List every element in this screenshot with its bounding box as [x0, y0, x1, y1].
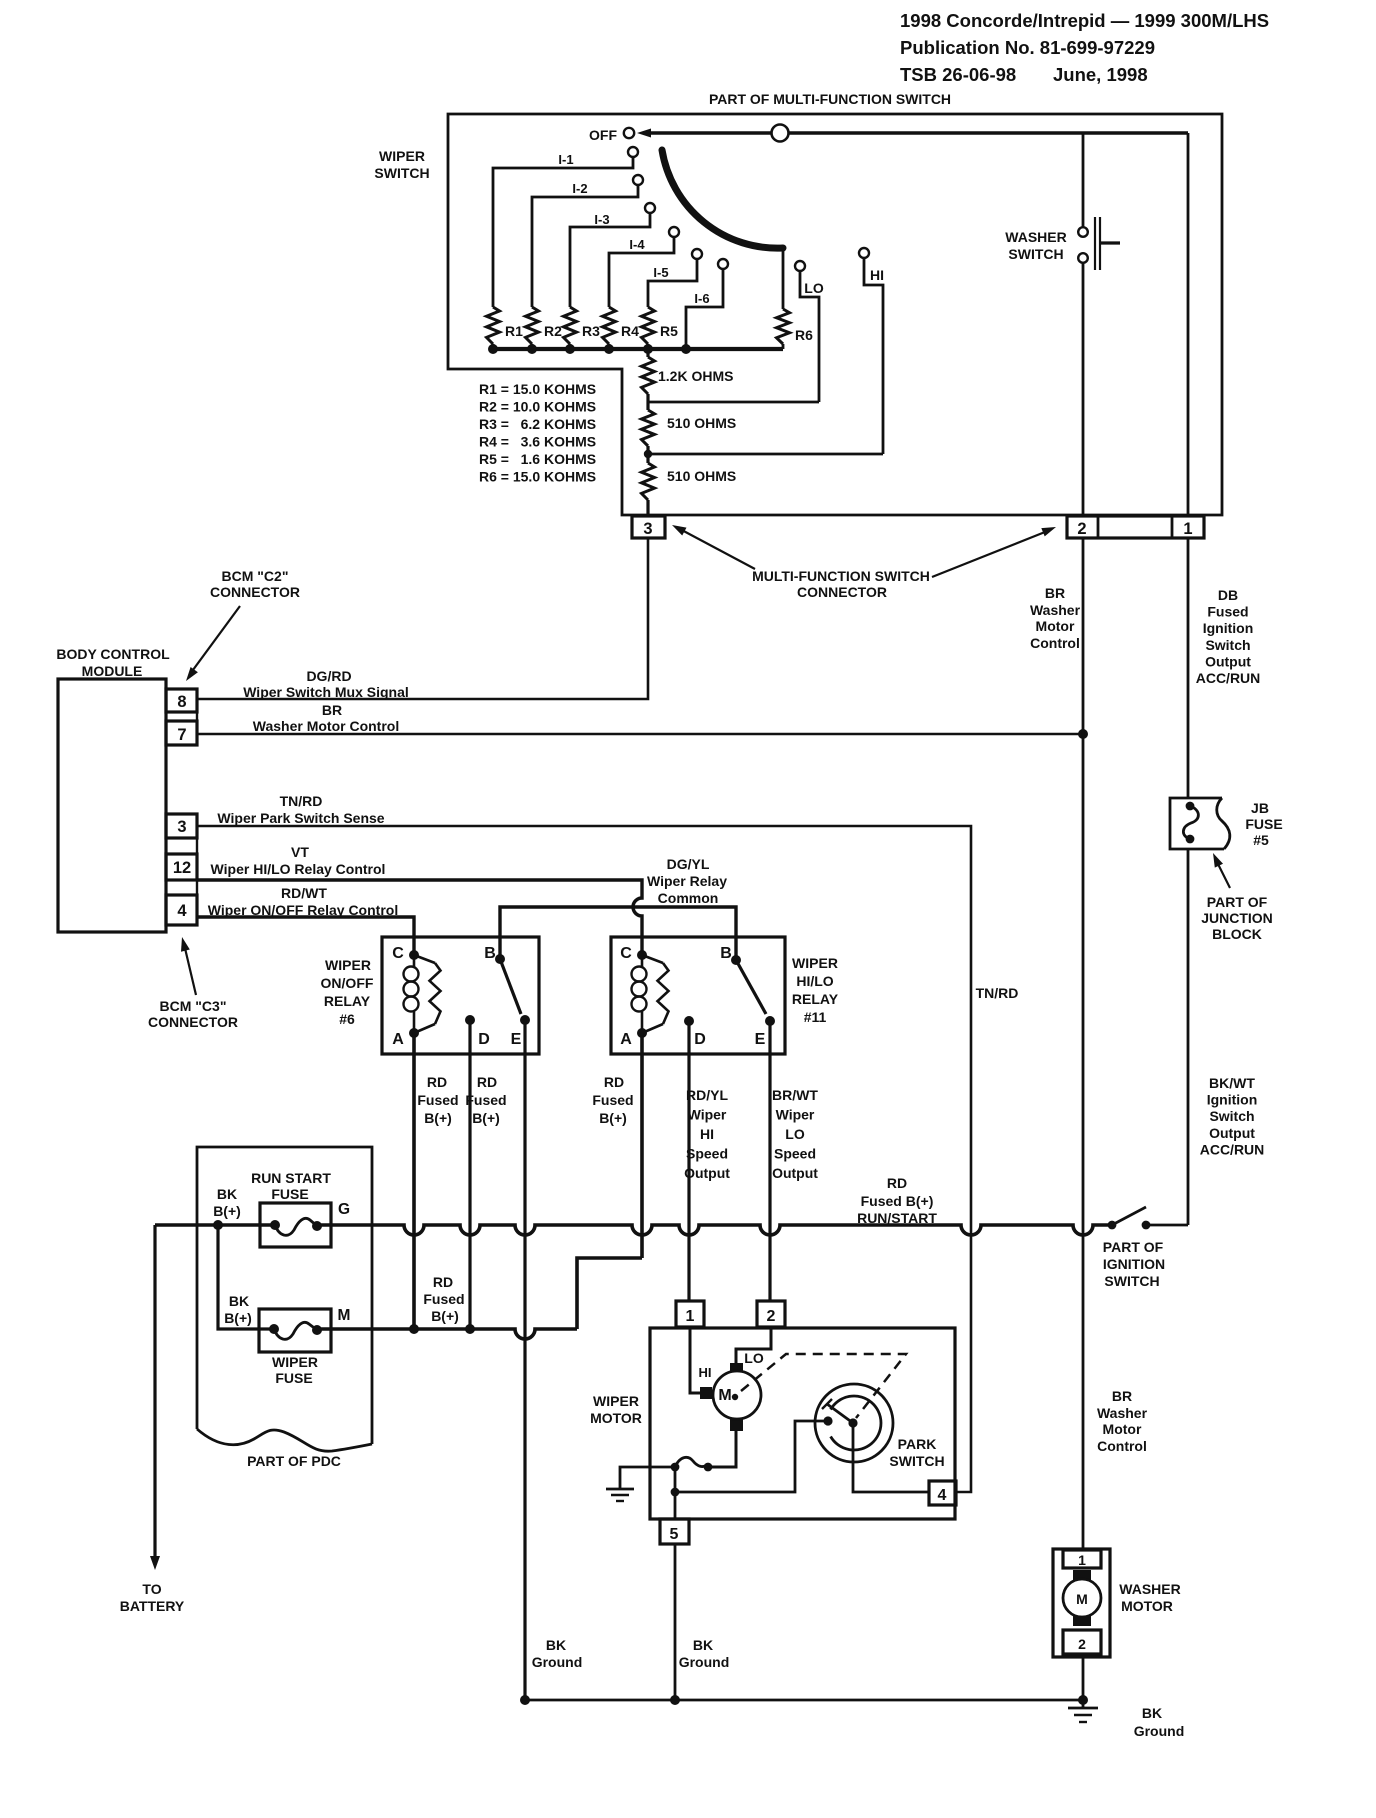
svg-text:DG/RD: DG/RD — [306, 668, 351, 684]
resistor R4 — [603, 307, 616, 344]
svg-text:Wiper HI/LO Relay Control: Wiper HI/LO Relay Control — [211, 861, 386, 877]
svg-text:R2: R2 — [544, 323, 562, 339]
relay blade — [736, 960, 766, 1014]
relay blade — [500, 959, 521, 1014]
svg-text:M: M — [338, 1307, 351, 1324]
ground bus — [525, 1699, 1083, 1702]
contact I-2 — [633, 175, 643, 185]
wiper motor box — [650, 1328, 955, 1519]
wire RD/WT wiper on/off relay control — [197, 917, 414, 955]
svg-text:2: 2 — [1078, 1636, 1086, 1652]
arrow to pin 2 — [932, 530, 1050, 577]
wiper motor pin 5 — [660, 1519, 689, 1544]
svg-text:WIPER: WIPER — [325, 957, 371, 973]
svg-text:510 OHMS: 510 OHMS — [667, 415, 736, 431]
svg-text:A: A — [620, 1031, 632, 1048]
svg-text:HI: HI — [699, 1365, 712, 1380]
wire HI junction — [648, 453, 883, 456]
junction — [1078, 729, 1088, 739]
svg-text:C: C — [620, 945, 632, 962]
relay box #11 — [611, 937, 785, 1054]
BCM pin 8 — [166, 689, 197, 712]
svg-text:Washer: Washer — [1097, 1405, 1148, 1421]
resistor 1.2K OHMS — [646, 349, 649, 357]
wiper motor pin 1 — [676, 1301, 704, 1327]
svg-text:Wiper Park Switch Sense: Wiper Park Switch Sense — [217, 810, 384, 826]
svg-text:BLOCK: BLOCK — [1212, 926, 1262, 942]
svg-text:Control: Control — [1097, 1438, 1147, 1454]
svg-text:BK: BK — [546, 1637, 566, 1653]
svg-text:PARK: PARK — [898, 1436, 937, 1452]
relay terminal D — [684, 1016, 694, 1026]
resistor 510 OHMS lower — [646, 454, 649, 463]
svg-text:3: 3 — [643, 520, 652, 538]
wire relay6 E to ground — [523, 1020, 526, 1700]
contact I-6 — [718, 259, 728, 269]
resistor R2 — [526, 307, 539, 344]
svg-text:RD: RD — [427, 1074, 447, 1090]
svg-text:BR: BR — [1112, 1388, 1132, 1404]
junction — [671, 1463, 680, 1472]
wire OFF feed to pin 1 — [646, 131, 1188, 134]
wire relay11 E wiper lo speed output — [768, 1021, 771, 1301]
wire BR washer motor control drop — [1082, 538, 1085, 1550]
svg-text:SWITCH: SWITCH — [374, 165, 429, 181]
svg-text:HI/LO: HI/LO — [796, 973, 833, 989]
svg-text:BODY CONTROL: BODY CONTROL — [56, 646, 170, 662]
svg-text:IGNITION: IGNITION — [1103, 1256, 1165, 1272]
part of PDC box — [197, 1147, 372, 1444]
wire motor brush to park jumper — [708, 1431, 736, 1467]
relay terminal C — [637, 950, 647, 960]
svg-text:TSB 26-06-98: TSB 26-06-98 — [900, 64, 1016, 85]
svg-text:LO: LO — [804, 280, 824, 296]
svg-text:BK: BK — [217, 1186, 237, 1202]
svg-text:510 OHMS: 510 OHMS — [667, 468, 736, 484]
svg-text:RD: RD — [433, 1274, 453, 1290]
junction — [644, 450, 652, 458]
svg-text:ACC/RUN: ACC/RUN — [1200, 1141, 1265, 1157]
svg-text:WIPER: WIPER — [379, 148, 425, 164]
svg-text:Fused: Fused — [592, 1092, 633, 1108]
svg-text:I-6: I-6 — [694, 291, 709, 306]
svg-text:PART OF PDC: PART OF PDC — [247, 1453, 341, 1469]
svg-text:MODULE: MODULE — [82, 663, 143, 679]
junction — [409, 1324, 419, 1334]
park switch linkage dashed — [741, 1354, 906, 1418]
svg-text:R1 = 15.0 KOHMS: R1 = 15.0 KOHMS — [479, 381, 596, 397]
svg-text:B: B — [484, 945, 496, 962]
BCM pin spacer — [166, 880, 197, 895]
svg-text:1.2K OHMS: 1.2K OHMS — [658, 368, 733, 384]
svg-text:3: 3 — [177, 818, 186, 836]
svg-text:BK: BK — [229, 1293, 249, 1309]
svg-text:Fused: Fused — [1207, 604, 1248, 620]
wire pin2 to LO brush — [736, 1327, 771, 1363]
svg-text:OFF: OFF — [589, 127, 617, 143]
body control module — [58, 679, 166, 932]
svg-text:Motor: Motor — [1036, 618, 1075, 634]
relay terminal C — [409, 950, 419, 960]
svg-text:R5: R5 — [660, 323, 678, 339]
svg-text:R5 = 1.6 KOHMS: R5 = 1.6 KOHMS — [479, 451, 596, 467]
svg-text:R4: R4 — [621, 323, 639, 339]
relay coil resistor — [642, 955, 663, 963]
wire DG/RD wiper switch mux signal — [197, 538, 648, 699]
arrow to C3 — [184, 944, 196, 995]
svg-text:8: 8 — [177, 693, 186, 711]
svg-text:Output: Output — [1205, 653, 1251, 669]
svg-text:BR: BR — [1045, 585, 1065, 601]
park switch left contact — [823, 1416, 832, 1425]
resistor R6 — [782, 248, 785, 309]
contact I-4 — [669, 227, 679, 237]
svg-text:Wiper: Wiper — [776, 1107, 815, 1123]
BCM pin 12 — [166, 854, 197, 880]
fuse wiper — [259, 1309, 331, 1352]
BCM pin 3 — [166, 814, 197, 838]
ignition switch — [1108, 1221, 1117, 1230]
washer motor — [1053, 1549, 1110, 1657]
ground symbol main — [1082, 1700, 1085, 1708]
svg-text:WASHER: WASHER — [1119, 1581, 1180, 1597]
wire washer switch to pin 2 — [1082, 263, 1085, 516]
svg-text:BCM "C3": BCM "C3" — [160, 998, 227, 1014]
svg-text:FUSE: FUSE — [271, 1186, 308, 1202]
fuse JB #5 — [1170, 798, 1224, 849]
wire LO — [800, 271, 819, 402]
svg-text:Output: Output — [772, 1165, 818, 1181]
svg-text:RELAY: RELAY — [792, 991, 839, 1007]
svg-text:Washer Motor Control: Washer Motor Control — [253, 718, 399, 734]
svg-text:#5: #5 — [1253, 832, 1269, 848]
relay terminal B — [731, 955, 741, 965]
svg-text:Ground: Ground — [679, 1654, 730, 1670]
svg-text:SWITCH: SWITCH — [889, 1453, 944, 1469]
svg-text:PART OF: PART OF — [1207, 894, 1268, 910]
svg-text:Switch: Switch — [1205, 637, 1250, 653]
svg-text:7: 7 — [177, 726, 186, 744]
fuse run/start — [260, 1203, 331, 1247]
wire washer motor to ground — [1082, 1657, 1085, 1700]
park switch arm — [827, 1404, 853, 1423]
svg-text:I-2: I-2 — [572, 181, 587, 196]
wire I-3 to resistor — [570, 213, 650, 307]
svg-text:R4 = 3.6 KOHMS: R4 = 3.6 KOHMS — [479, 434, 596, 450]
svg-text:R3: R3 — [582, 323, 600, 339]
junction — [465, 1324, 475, 1334]
svg-text:I-1: I-1 — [558, 152, 573, 167]
wire TN/RD wiper park switch sense — [197, 826, 971, 1492]
svg-text:MOTOR: MOTOR — [1121, 1598, 1173, 1614]
svg-text:D: D — [478, 1031, 490, 1048]
BCM pin spacer — [166, 712, 197, 721]
svg-text:1: 1 — [1078, 1552, 1086, 1568]
svg-text:B(+): B(+) — [424, 1110, 452, 1126]
ground symbol wiper motor — [606, 1488, 634, 1491]
svg-text:BCM "C2": BCM "C2" — [222, 568, 289, 584]
svg-text:M: M — [718, 1387, 731, 1404]
washer switch — [1078, 227, 1088, 237]
junction — [1078, 1695, 1088, 1705]
arrow to junction block — [1216, 860, 1230, 888]
svg-text:Output: Output — [684, 1165, 730, 1181]
svg-text:MOTOR: MOTOR — [590, 1410, 642, 1426]
svg-text:Wiper Relay: Wiper Relay — [647, 873, 727, 889]
svg-text:Motor: Motor — [1103, 1421, 1142, 1437]
svg-text:BR: BR — [322, 702, 342, 718]
svg-text:R2 = 10.0 KOHMS: R2 = 10.0 KOHMS — [479, 399, 596, 415]
svg-text:June, 1998: June, 1998 — [1053, 64, 1148, 85]
wire I-4 to resistor — [609, 237, 674, 307]
wire HI — [864, 258, 883, 454]
resistor bus — [490, 347, 783, 351]
junction — [604, 344, 614, 354]
wire to case ground — [620, 1467, 675, 1489]
svg-text:Ground: Ground — [532, 1654, 583, 1670]
arrow to pin 3 — [678, 528, 755, 569]
wiper motor M1 — [700, 1387, 712, 1399]
wire relay11 D wiper hi speed output — [687, 1021, 690, 1301]
relay terminal B — [495, 954, 505, 964]
resistor R1 — [487, 307, 500, 344]
svg-text:1998 Concorde/Intrepid — 1999: 1998 Concorde/Intrepid — 1999 300M/LHS — [900, 10, 1269, 31]
svg-text:B(+): B(+) — [213, 1203, 241, 1219]
wire VT wiper hi/lo relay control — [197, 880, 642, 955]
wire pin1 drop — [1187, 133, 1190, 516]
wire battery feed — [155, 1223, 275, 1227]
svg-text:Ground: Ground — [1134, 1723, 1185, 1739]
svg-text:B(+): B(+) — [431, 1308, 459, 1324]
wire BR washer motor control from BCM — [197, 733, 1083, 736]
junction — [670, 1695, 680, 1705]
svg-text:LO: LO — [744, 1350, 764, 1366]
arrow to C2 — [190, 606, 240, 674]
wire BK/WT ignition switch output — [1187, 849, 1190, 1225]
svg-text:BK: BK — [1142, 1705, 1162, 1721]
connector strip pins 2-1 — [1067, 516, 1204, 538]
wire RD fused B+ from wiper fuse — [317, 1329, 577, 1339]
relay coil — [404, 967, 419, 982]
wire pin1 to HI brush — [690, 1327, 700, 1393]
svg-text:R6: R6 — [795, 327, 813, 343]
relay coil resistor — [414, 955, 435, 963]
svg-text:BATTERY: BATTERY — [120, 1598, 185, 1614]
svg-text:E: E — [511, 1031, 522, 1048]
svg-text:Fused: Fused — [465, 1092, 506, 1108]
svg-text:Common: Common — [658, 890, 719, 906]
svg-text:2: 2 — [1077, 520, 1086, 538]
wire to wiper fuse — [218, 1225, 274, 1329]
svg-text:Wiper: Wiper — [688, 1107, 727, 1123]
svg-text:Output: Output — [1209, 1125, 1255, 1141]
connector pin 3 — [632, 516, 665, 538]
wire I-6 to resistor — [686, 269, 723, 349]
svg-text:#6: #6 — [339, 1011, 355, 1027]
BCM pin 7 — [166, 721, 197, 745]
svg-text:BR/WT: BR/WT — [772, 1087, 818, 1103]
wire DG/YL wiper relay common — [500, 907, 736, 960]
wire washer switch tap — [1082, 133, 1085, 228]
junction — [671, 1488, 680, 1497]
junction — [527, 344, 537, 354]
wire I-5 to resistor — [648, 259, 697, 307]
wire park switch to pin 4 — [853, 1423, 929, 1492]
svg-text:JB: JB — [1251, 800, 1269, 816]
svg-text:WIPER: WIPER — [792, 955, 838, 971]
junction — [681, 344, 691, 354]
wiper motor pin 2 — [757, 1301, 785, 1327]
svg-text:TO: TO — [142, 1581, 161, 1597]
wire LO junction — [648, 401, 819, 404]
svg-text:PART OF MULTI-FUNCTION SWITCH: PART OF MULTI-FUNCTION SWITCH — [709, 91, 951, 107]
svg-text:Fused: Fused — [417, 1092, 458, 1108]
svg-text:Publication No. 81-699-97229: Publication No. 81-699-97229 — [900, 37, 1155, 58]
wire to pin 5 — [674, 1467, 677, 1519]
svg-text:PART OF: PART OF — [1103, 1239, 1164, 1255]
svg-text:HI: HI — [700, 1126, 714, 1142]
BCM pin spacer — [166, 838, 197, 854]
relay coil — [632, 967, 647, 982]
contact I-3 — [645, 203, 655, 213]
svg-text:I-5: I-5 — [653, 265, 668, 280]
svg-text:CONNECTOR: CONNECTOR — [210, 584, 300, 600]
svg-text:RD: RD — [477, 1074, 497, 1090]
junction — [520, 1695, 530, 1705]
svg-text:B(+): B(+) — [599, 1110, 627, 1126]
svg-text:Speed: Speed — [774, 1146, 816, 1162]
relay terminal D — [465, 1015, 475, 1025]
svg-text:Ignition: Ignition — [1207, 1092, 1258, 1108]
svg-text:Switch: Switch — [1209, 1108, 1254, 1124]
relay terminal E — [520, 1015, 530, 1025]
svg-text:C: C — [392, 945, 404, 962]
svg-text:RELAY: RELAY — [324, 993, 371, 1009]
svg-text:RUN START: RUN START — [251, 1170, 331, 1186]
junction — [704, 1463, 713, 1472]
svg-text:4: 4 — [177, 902, 187, 920]
svg-text:Wiper Switch Mux Signal: Wiper Switch Mux Signal — [243, 684, 409, 700]
contact LO — [795, 261, 805, 271]
wire relay6 D to fused B+ — [468, 1020, 471, 1329]
park jumper squiggle — [675, 1457, 708, 1467]
relay terminal A — [409, 1028, 419, 1038]
svg-text:Washer: Washer — [1030, 602, 1081, 618]
svg-text:#11: #11 — [804, 1009, 827, 1025]
svg-text:FUSE: FUSE — [1245, 816, 1282, 832]
svg-text:CONNECTOR: CONNECTOR — [797, 584, 887, 600]
svg-text:SWITCH: SWITCH — [1104, 1273, 1159, 1289]
svg-text:JUNCTION: JUNCTION — [1201, 910, 1273, 926]
svg-text:SWITCH: SWITCH — [1008, 246, 1063, 262]
svg-text:Fused: Fused — [423, 1291, 464, 1307]
svg-text:VT: VT — [291, 844, 309, 860]
svg-text:DB: DB — [1218, 587, 1238, 603]
multi-function switch box — [448, 114, 1222, 515]
svg-text:WIPER: WIPER — [593, 1393, 639, 1409]
svg-text:R3 = 6.2 KOHMS: R3 = 6.2 KOHMS — [479, 416, 596, 432]
svg-text:Wiper ON/OFF Relay Control: Wiper ON/OFF Relay Control — [208, 902, 398, 918]
wire DB fused ignition switch output — [1187, 538, 1190, 798]
svg-text:CONNECTOR: CONNECTOR — [148, 1014, 238, 1030]
svg-text:RD/WT: RD/WT — [281, 885, 327, 901]
svg-text:12: 12 — [173, 859, 191, 877]
svg-text:Fused B(+): Fused B(+) — [861, 1193, 934, 1209]
junction — [213, 1220, 223, 1230]
wiper motor pin 4 — [929, 1481, 956, 1505]
svg-text:5: 5 — [670, 1526, 679, 1543]
wire pin 5 to ground bus — [674, 1544, 677, 1700]
svg-text:WASHER: WASHER — [1005, 229, 1066, 245]
rotary wiper arc — [662, 150, 783, 248]
svg-text:DG/YL: DG/YL — [667, 856, 710, 872]
svg-text:ACC/RUN: ACC/RUN — [1196, 670, 1261, 686]
svg-text:A: A — [392, 1031, 404, 1048]
svg-text:BK/WT: BK/WT — [1209, 1075, 1255, 1091]
svg-text:M: M — [1076, 1591, 1088, 1607]
relay terminal E — [765, 1016, 775, 1026]
resistor R5 — [642, 307, 655, 344]
junction — [643, 344, 653, 354]
svg-text:B(+): B(+) — [472, 1110, 500, 1126]
svg-text:4: 4 — [938, 1487, 947, 1504]
svg-text:1: 1 — [686, 1308, 695, 1325]
wire relay11 A to fused B+ — [640, 1033, 644, 1258]
svg-text:Ignition: Ignition — [1203, 620, 1254, 636]
wire RD fused B+ run/start bus — [317, 1225, 1108, 1235]
svg-text:HI: HI — [870, 267, 884, 283]
wire I-2 to resistor — [532, 185, 638, 307]
svg-text:G: G — [338, 1201, 350, 1218]
svg-text:TN/RD: TN/RD — [976, 985, 1019, 1001]
rotary switch pivot — [772, 125, 789, 142]
wire I-1 to resistor — [493, 157, 633, 307]
contact I-5 — [692, 249, 702, 259]
svg-text:FUSE: FUSE — [275, 1370, 312, 1386]
svg-text:RD: RD — [887, 1175, 907, 1191]
svg-text:R6 = 15.0 KOHMS: R6 = 15.0 KOHMS — [479, 469, 596, 485]
BCM pin 4 — [166, 895, 197, 925]
park switch inner ring — [831, 1396, 881, 1450]
relay terminal A — [637, 1028, 647, 1038]
park switch pivot — [848, 1418, 857, 1427]
svg-text:BK: BK — [693, 1637, 713, 1653]
svg-text:MULTI-FUNCTION SWITCH: MULTI-FUNCTION SWITCH — [752, 568, 930, 584]
junction — [488, 344, 498, 354]
svg-text:Speed: Speed — [686, 1146, 728, 1162]
park switch outer ring — [815, 1384, 893, 1462]
svg-text:E: E — [755, 1031, 766, 1048]
contact I-1 — [628, 147, 638, 157]
resistor 510 OHMS upper — [646, 402, 649, 410]
wire to battery — [153, 1225, 156, 1558]
svg-text:RD/YL: RD/YL — [686, 1087, 728, 1103]
svg-text:2: 2 — [767, 1308, 776, 1325]
svg-text:I-3: I-3 — [594, 212, 609, 227]
junction — [565, 344, 575, 354]
svg-text:R1: R1 — [505, 323, 523, 339]
relay box #6 — [382, 937, 539, 1054]
wire relay6 A to fused B+ — [412, 1033, 416, 1329]
svg-text:D: D — [694, 1031, 706, 1048]
svg-text:B: B — [720, 945, 732, 962]
resistor R3 — [564, 307, 577, 344]
wire park switch ground side — [675, 1421, 825, 1492]
svg-text:I-4: I-4 — [629, 237, 645, 252]
svg-text:TN/RD: TN/RD — [280, 793, 323, 809]
svg-text:1: 1 — [1183, 520, 1192, 538]
svg-text:B(+): B(+) — [224, 1310, 252, 1326]
